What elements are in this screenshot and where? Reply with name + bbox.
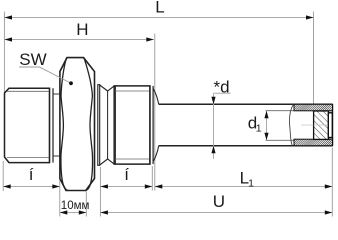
- thread1 chamfer edges: [5, 88, 10, 93]
- thread2 start vertical: [115, 86, 117, 164]
- tube wall section top (hatched): [294, 104, 333, 111]
- SW leader line: [19, 67, 71, 83]
- dimension line i1: [3, 186, 60, 188]
- svg-text:í: í: [29, 165, 34, 184]
- svg-text:H: H: [76, 20, 88, 39]
- extension line H/L1 (x=154.8): [154, 34, 156, 191]
- centerline: [301, 124, 330, 126]
- extension line hex left (x=59.8): [59, 178, 61, 217]
- dimension line 10mm: [60, 212, 87, 214]
- cone transition top: [153, 89, 159, 105]
- extension line hex right 10mm (x=86.3): [85, 192, 87, 217]
- break wavy line: [290, 104, 294, 145]
- extension line collar (x=100.4): [99, 167, 101, 217]
- thread section 1 outline: [5, 88, 50, 162]
- extension line L right (x=313.5): [313, 12, 315, 105]
- svg-text:*d: *d: [214, 78, 230, 97]
- svg-text:í: í: [124, 165, 129, 184]
- label *d leader: [214, 92, 231, 94]
- thread section 2 outline: [114, 86, 150, 164]
- end insert rectangle: [328, 113, 332, 138]
- svg-text:L: L: [155, 0, 164, 17]
- thread2 root lines: [115, 90, 150, 92]
- centerline over element: [314, 124, 328, 126]
- groove root circle: [107, 91, 109, 159]
- dimension line U: [100, 212, 332, 214]
- tube end face: [332, 104, 334, 145]
- hex face arc left: [61, 58, 68, 191]
- thread1 end face lines: [49, 88, 51, 162]
- dimension line i2: [100, 186, 152, 188]
- SW leader dot: [69, 81, 73, 85]
- sensing element block (hatched): [314, 111, 329, 139]
- collar disc: [98, 85, 100, 166]
- thread1 root lines: [7, 90, 50, 92]
- dimension line H: [5, 39, 154, 41]
- thread2 end face lines: [149, 86, 151, 164]
- svg-text:U: U: [213, 192, 225, 211]
- svg-text:10мм: 10мм: [61, 200, 90, 212]
- tube outline: [159, 103, 333, 105]
- svg-text:SW: SW: [19, 50, 46, 69]
- extension line left bottom (x=3.2): [2, 161, 4, 191]
- cone transition bottom: [153, 146, 159, 162]
- groove V top: [100, 85, 115, 91]
- undercut edges: [53, 93, 61, 95]
- dimension *d vertical line: [213, 93, 215, 159]
- dimension d1 vertical line: [266, 111, 268, 141]
- extension line thread2 end (x=152.3): [151, 166, 153, 191]
- groove V bottom: [100, 159, 115, 165]
- extension line left (x=4.4): [3, 12, 5, 94]
- extension line tube end (x=332.3): [331, 148, 333, 217]
- tube wall section bottom (hatched): [294, 139, 333, 146]
- bore extension lines: [266, 110, 295, 112]
- hex face arc right: [84, 58, 93, 191]
- hex silhouette: [60, 58, 95, 191]
- dimension line L: [5, 17, 314, 19]
- dimension line L1: [155, 186, 332, 188]
